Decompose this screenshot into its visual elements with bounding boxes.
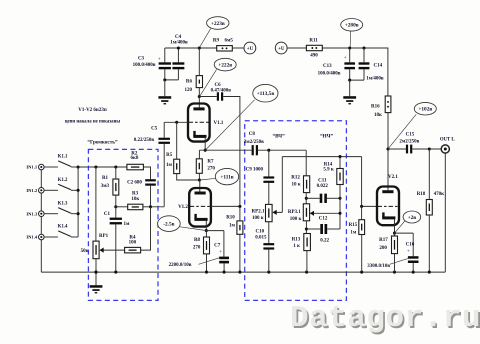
wire RP2.1 to C10 <box>268 222 270 243</box>
resistor R2 6к8 <box>127 164 143 170</box>
svg-text:10к: 10к <box>131 197 139 202</box>
svg-text:470к: 470к <box>434 192 445 197</box>
svg-text:100.0/400в: 100.0/400в <box>133 63 156 68</box>
capacitor C8 2м2/250в <box>252 145 254 155</box>
svg-text:R8: R8 <box>194 238 201 243</box>
svg-text:R7: R7 <box>207 160 214 165</box>
capacitor C3 <box>164 48 166 62</box>
node R1 bottom <box>114 205 117 208</box>
svg-text:1м/400в: 1м/400в <box>366 77 384 82</box>
svg-text:+222в: +222в <box>218 63 232 69</box>
node R1 top <box>114 165 117 168</box>
wire IN1.4 to ground bus <box>40 240 42 272</box>
svg-text:“Громкость”: “Громкость” <box>87 140 118 146</box>
svg-text:IN1.2: IN1.2 <box>26 188 38 193</box>
svg-text:R18: R18 <box>417 192 426 197</box>
svg-text:R10: R10 <box>226 216 235 221</box>
resistor R6 120 <box>198 48 200 76</box>
node RP3.1 bottom <box>305 221 307 234</box>
wire OUT to ground bus <box>444 153 446 272</box>
capacitor C2 680 <box>145 179 156 181</box>
node C9 top <box>267 149 270 152</box>
capacitor C4 <box>177 48 179 62</box>
potentiometer RP1 50к <box>95 167 97 241</box>
node R18 top <box>428 147 431 150</box>
svg-text:100 к: 100 к <box>252 216 264 221</box>
svg-text:100 к: 100 к <box>290 217 302 222</box>
svg-text:R3: R3 <box>132 192 139 197</box>
voltage label +113,5в <box>253 84 278 102</box>
switch K1.1 <box>44 166 58 168</box>
node RP1 ground <box>94 271 97 274</box>
svg-text:K1.2: K1.2 <box>58 178 68 183</box>
terminal +U right <box>275 42 287 54</box>
svg-text:1м: 1м <box>166 163 173 168</box>
voltage label +2в <box>403 211 421 223</box>
svg-text:R9: R9 <box>213 39 220 44</box>
svg-text:C16: C16 <box>406 242 415 247</box>
svg-text:270: 270 <box>193 246 201 251</box>
svg-text:K1.1: K1.1 <box>58 155 68 160</box>
svg-text:V1.1: V1.1 <box>213 121 223 126</box>
svg-text:R1: R1 <box>102 176 109 181</box>
wire R4 to output node <box>141 207 151 250</box>
resistor R7 270 <box>199 150 205 159</box>
wire R2 to C2 <box>143 167 150 179</box>
svg-text:1м: 1м <box>123 222 130 227</box>
node RP1 top <box>94 165 97 168</box>
svg-text:+223в: +223в <box>211 21 225 27</box>
wire input to volume network <box>78 166 127 168</box>
node RP3.1 wiper right <box>338 212 341 215</box>
voltage label +102в <box>414 102 436 115</box>
svg-text:R12: R12 <box>291 176 300 181</box>
svg-text:цепи накала не показаны: цепи накала не показаны <box>65 119 121 124</box>
wire R6 to V1.1 anode <box>198 88 200 109</box>
potentiometer RP2.1 100к <box>266 204 273 221</box>
svg-text:C7: C7 <box>214 244 221 249</box>
svg-text:200: 200 <box>379 246 387 251</box>
triode V1.2 <box>199 180 201 192</box>
svg-text:+: + <box>407 250 410 255</box>
wire RP1 wiper <box>100 249 124 251</box>
voltage label -2.5в <box>158 216 181 232</box>
svg-text:+280в: +280в <box>345 23 359 29</box>
watermark Datagor.ru <box>290 301 480 336</box>
capacitor C7 2200.0/10в <box>206 231 224 257</box>
wire V1.2 cathode <box>205 220 207 230</box>
svg-text:+: + <box>219 250 222 255</box>
terminal +U left <box>244 42 256 54</box>
svg-text:1м: 1м <box>229 224 236 229</box>
node R7 bottom / V1.2 anode <box>198 178 201 181</box>
wire R9 to +U <box>232 47 244 49</box>
capacitor C11 0.022 <box>306 197 319 199</box>
svg-text:R13: R13 <box>292 238 301 243</box>
svg-text:2м2/250в: 2м2/250в <box>244 140 264 145</box>
svg-text:RP2.1: RP2.1 <box>252 210 265 215</box>
ground bus <box>41 271 445 273</box>
svg-text:R11: R11 <box>309 39 318 44</box>
svg-text:270: 270 <box>207 167 215 172</box>
capacitor C6 0.47/400в <box>199 96 217 98</box>
node R14 top <box>338 155 341 158</box>
node R5 top <box>175 121 178 124</box>
svg-text:R6: R6 <box>186 80 193 85</box>
wire R14 down <box>339 185 341 230</box>
svg-text:C1: C1 <box>104 212 111 217</box>
svg-text:120: 120 <box>184 88 192 93</box>
wire RP2.1 wiper up <box>273 157 282 213</box>
switch K1.3 <box>44 213 58 215</box>
svg-text:+U: +U <box>278 47 285 52</box>
svg-text:+102в: +102в <box>418 107 432 113</box>
wire R16 to C15 node <box>387 113 389 149</box>
connector IN1.4 <box>39 234 45 240</box>
capacitor C12 0.22 <box>306 228 320 230</box>
resistor R10 1м <box>239 206 241 221</box>
svg-text:1м: 1м <box>350 230 357 235</box>
svg-text:R17: R17 <box>379 238 388 243</box>
switch K1.4 <box>44 236 58 238</box>
svg-text:3м3: 3м3 <box>101 184 110 189</box>
wire C8 to R12 <box>258 149 306 151</box>
triode V1.1 <box>188 104 210 142</box>
svg-text:490: 490 <box>310 54 318 59</box>
potentiometer RP3.1 100к <box>303 204 309 221</box>
wire +U to R11 <box>287 47 306 49</box>
svg-text:V2.1: V2.1 <box>388 175 398 180</box>
svg-text:C15: C15 <box>406 132 415 137</box>
capacitor C5 0.22/250в <box>163 122 165 137</box>
capacitor C10 0.015 <box>263 243 274 245</box>
ground below C3 <box>164 80 166 96</box>
svg-text:2200.0/10в: 2200.0/10в <box>169 263 192 268</box>
svg-text:18к: 18к <box>374 113 382 118</box>
voltage label +111в <box>215 168 238 184</box>
node C3-C4 junction <box>177 46 180 49</box>
capacitor C15 <box>388 148 406 150</box>
svg-text:C2 680: C2 680 <box>127 181 142 186</box>
svg-text:RP1: RP1 <box>99 234 109 239</box>
connector OUT L <box>441 145 449 153</box>
voltage label +280в <box>341 19 363 32</box>
svg-text:6м5: 6м5 <box>224 39 233 44</box>
svg-text:-2.5в: -2.5в <box>163 222 174 228</box>
resistor R17 200 <box>394 233 396 236</box>
svg-text:1 к: 1 к <box>293 244 300 249</box>
svg-text:10 к: 10 к <box>292 182 301 187</box>
svg-text:1м/400в: 1м/400в <box>170 41 188 46</box>
node V1.1 cathode <box>204 149 207 152</box>
node C15 junction <box>386 147 389 150</box>
svg-text:+111в: +111в <box>220 175 233 181</box>
capacitor C16 3300.0/10в <box>395 233 414 256</box>
svg-text:C12: C12 <box>319 217 328 222</box>
switch K1.2 <box>44 189 58 191</box>
svg-text:+: + <box>158 57 161 62</box>
node V1.1 anode / C6 <box>198 95 201 98</box>
svg-text:IN1.4: IN1.4 <box>26 235 38 240</box>
svg-text:+2в: +2в <box>408 215 417 221</box>
resistor R18 470к <box>428 149 430 200</box>
node V1.2 cathode <box>205 229 208 232</box>
svg-text:RP3.1: RP3.1 <box>288 210 301 215</box>
resistor R5 1м <box>176 122 178 159</box>
svg-text:IN1.3: IN1.3 <box>26 211 38 216</box>
svg-text:V1.2: V1.2 <box>178 205 188 210</box>
svg-text:0.022: 0.022 <box>317 184 329 189</box>
wire V2.1 cathode <box>394 219 396 233</box>
svg-text:+113,5в: +113,5в <box>257 91 275 97</box>
svg-text:5.9 к: 5.9 к <box>323 168 334 173</box>
wire cathode to C8 <box>205 149 251 151</box>
svg-text:OUT L: OUT L <box>440 137 455 142</box>
node R12 bottom <box>305 197 308 200</box>
resistor R16 18к <box>385 96 391 113</box>
svg-text:V1-V2 6н23п: V1-V2 6н23п <box>78 108 107 113</box>
svg-text:K1.3: K1.3 <box>58 201 68 206</box>
resistor R4 100 <box>125 247 141 253</box>
svg-text:100.0/400в: 100.0/400в <box>318 71 341 76</box>
node R15 top <box>360 205 363 208</box>
svg-text:2м2/250в: 2м2/250в <box>399 139 419 144</box>
resistor R11 490 <box>306 45 322 50</box>
svg-text:IN1.1: IN1.1 <box>26 165 38 170</box>
wire RP3.1 wiper <box>310 212 340 214</box>
svg-text:R5: R5 <box>166 153 173 158</box>
tone control dashed box <box>245 121 347 301</box>
resistor R14 5.9к <box>339 157 341 169</box>
svg-text:C4: C4 <box>175 35 182 40</box>
resistor R12 10к <box>305 150 307 176</box>
voltage label +222в <box>214 58 236 71</box>
svg-text:C14: C14 <box>373 63 382 68</box>
svg-text:C5: C5 <box>151 127 158 132</box>
svg-text:3300.0/10в: 3300.0/10в <box>367 264 390 269</box>
wire input bus vertical <box>77 167 79 237</box>
svg-text:50к: 50к <box>81 249 89 254</box>
connector IN1.1 <box>40 167 42 190</box>
svg-text:C11: C11 <box>318 179 327 184</box>
svg-text:0.22/250в: 0.22/250в <box>134 138 155 143</box>
svg-text:C8: C8 <box>249 132 256 137</box>
svg-text:R16: R16 <box>371 104 380 109</box>
node R6 top <box>198 46 201 49</box>
ground in volume box <box>90 285 103 288</box>
capacitor C1 1м <box>115 207 117 218</box>
wire V1.1 grid <box>164 121 188 123</box>
svg-text:0.47/400в: 0.47/400в <box>211 88 232 93</box>
resistor R8 270 <box>205 231 207 237</box>
capacitor C14 <box>362 46 365 49</box>
connector IN1.3 <box>40 214 42 237</box>
svg-text:C13: C13 <box>323 64 332 69</box>
resistor R15 1м <box>361 206 363 219</box>
svg-text:K1.4: K1.4 <box>58 225 68 230</box>
node V1.2 grid <box>238 205 241 208</box>
resistor R1 3м3 <box>115 167 117 179</box>
svg-text:+U: +U <box>247 47 254 52</box>
node C11 right <box>338 197 341 200</box>
svg-text:+: + <box>344 56 347 61</box>
capacitor C9 1000 <box>268 150 270 176</box>
resistor R3 10к <box>116 206 128 208</box>
svg-text:0.22: 0.22 <box>320 239 329 244</box>
node V2.1 cathode <box>393 232 396 235</box>
wire tone out to V2.1 grid <box>362 157 378 207</box>
ground below C13 <box>349 80 351 96</box>
svg-text:6к8: 6к8 <box>131 156 139 161</box>
svg-text:C3: C3 <box>138 57 145 62</box>
svg-text:“ВЧ”: “ВЧ” <box>272 134 285 140</box>
node volume output <box>149 205 152 208</box>
connector IN1.2 <box>40 190 42 213</box>
resistor R13 1к <box>304 234 311 251</box>
voltage label +223в <box>207 17 229 30</box>
capacitor C13 <box>348 46 351 49</box>
triode V2.1 <box>387 149 389 190</box>
svg-text:C10: C10 <box>255 229 264 234</box>
wire V1.2 grid <box>211 205 240 207</box>
volume control dashed box <box>88 149 158 300</box>
svg-text:0.015: 0.015 <box>255 236 267 241</box>
svg-text:R15: R15 <box>349 223 358 228</box>
wire V1.1 cathode <box>204 137 206 150</box>
wire top rail left <box>165 47 217 49</box>
wire R11 to R16 <box>322 48 388 96</box>
resistor R9 6м5 <box>217 46 233 51</box>
svg-text:100: 100 <box>129 240 137 245</box>
svg-text:“НЧ”: “НЧ” <box>320 133 333 139</box>
svg-text:C9 1000: C9 1000 <box>246 167 264 172</box>
wire tone mid rail <box>282 156 361 158</box>
